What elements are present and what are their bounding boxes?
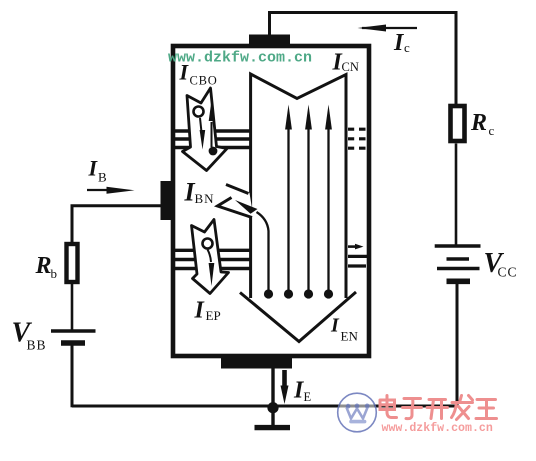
- svg-text:R: R: [470, 110, 487, 136]
- I_BN ribbon head and bottom edge: [218, 198, 253, 218]
- wire bottom horizontal: [72, 405, 330, 408]
- svg-text:I: I: [194, 298, 206, 324]
- svg-text:www.dzkfw.com.cn: www.dzkfw.com.cn: [382, 422, 493, 435]
- junction EB right line1: [348, 245, 358, 248]
- I_CBO ribbon arrow: [183, 88, 228, 171]
- emitter contact: [221, 356, 292, 369]
- wire Vbb to bottom wire: [71, 346, 74, 408]
- battery Vbb plate long: [51, 329, 96, 332]
- battery Vbb plate short thick: [61, 340, 85, 345]
- I_BN ribbon top edge: [226, 185, 249, 194]
- I_BN curved dart arrow: [235, 200, 258, 214]
- battery Vcc plate1 long: [435, 244, 481, 248]
- I_c arrow: [362, 27, 417, 29]
- arrowhead I_CN 2: [305, 105, 312, 130]
- junction CB left line2: [175, 137, 250, 140]
- I_E thick arrow: [282, 370, 287, 387]
- svg-text:BB: BB: [27, 338, 47, 353]
- arrowhead I_CN 1: [285, 105, 292, 130]
- I_B arrow: [87, 189, 112, 191]
- battery Vcc plate2 short: [447, 257, 470, 261]
- svg-text:EN: EN: [341, 329, 359, 344]
- char zi: [403, 399, 422, 419]
- svg-text:b: b: [51, 266, 58, 281]
- electron dot 2: [284, 289, 293, 298]
- svg-text:EP: EP: [206, 308, 221, 323]
- char dian: [380, 396, 397, 418]
- collector contact: [249, 35, 290, 49]
- svg-text:E: E: [304, 390, 312, 404]
- electron line 3: [307, 128, 309, 290]
- I_CBO hole down arrow: [200, 118, 202, 132]
- ground stub: [271, 412, 274, 426]
- resistor Rb: [67, 244, 78, 282]
- junction CB left line3: [175, 146, 250, 149]
- junction node dot: [267, 402, 278, 413]
- wire base horizontal: [72, 206, 162, 243]
- wire Rb to Vbb: [71, 284, 74, 330]
- junction EB right small arrow: [355, 244, 364, 250]
- svg-text:R: R: [35, 253, 52, 279]
- electron dot 3: [304, 289, 313, 298]
- I_EP hole down arrow: [208, 250, 212, 263]
- junction EB right line2: [348, 255, 369, 258]
- wire Vcc to bottom corner: [330, 284, 457, 406]
- junction EB left line2: [175, 258, 250, 261]
- I_CBO hole circle: [194, 107, 204, 117]
- junction EB left line3: [175, 267, 250, 270]
- I_EP ribbon arrow: [192, 220, 229, 294]
- arrowhead I_CN 3: [325, 105, 332, 130]
- electron line 2: [287, 128, 289, 290]
- resistor Rc: [451, 106, 465, 141]
- I_CBO electron up arrow: [211, 122, 213, 147]
- junction CB right dashes: [348, 129, 366, 148]
- I_EP hole circle: [203, 239, 213, 249]
- svg-text:CN: CN: [342, 60, 359, 74]
- funnel electron channel outline: [251, 74, 346, 298]
- battery Vcc plate4 short thick: [447, 278, 471, 284]
- wire Rc to Vcc: [455, 144, 458, 245]
- junction CB left line1: [175, 129, 250, 132]
- char kai: [427, 400, 448, 419]
- svg-text:www.dzkfw.com.cn: www.dzkfw.com.cn: [168, 49, 312, 66]
- electron line 4: [327, 128, 329, 290]
- char wang: [476, 400, 497, 419]
- I_BN ribbon white mask: [217, 184, 254, 218]
- wire collector top: [270, 13, 457, 37]
- svg-text:CC: CC: [498, 265, 518, 280]
- svg-text:c: c: [489, 123, 495, 138]
- base contact: [161, 181, 173, 220]
- svg-text:I: I: [330, 315, 340, 337]
- electron dot 1: [264, 289, 273, 298]
- battery Vcc plate3 long: [437, 267, 480, 271]
- svg-text:B: B: [98, 170, 107, 185]
- transistor body outline: [173, 46, 369, 356]
- watermark logo circle W: [338, 393, 377, 432]
- svg-text:BN: BN: [195, 191, 215, 206]
- wire emitter to junction: [271, 368, 274, 404]
- ground bar: [255, 425, 291, 430]
- junction EB right line3: [348, 264, 366, 267]
- electron dot 4: [324, 289, 333, 298]
- svg-text:c: c: [404, 40, 410, 55]
- wire right vertical to Rc: [455, 11, 458, 106]
- I_BN curve tail to electron line 1: [257, 212, 269, 290]
- svg-text:I: I: [88, 156, 99, 181]
- svg-text:CBO: CBO: [190, 74, 218, 88]
- bottom V I_EN boundary: [240, 292, 356, 342]
- I_CBO electron dot: [209, 147, 218, 156]
- char fa: [452, 396, 473, 420]
- watermark chinese 电子开发王: [380, 396, 497, 420]
- junction EB left line1: [175, 249, 250, 252]
